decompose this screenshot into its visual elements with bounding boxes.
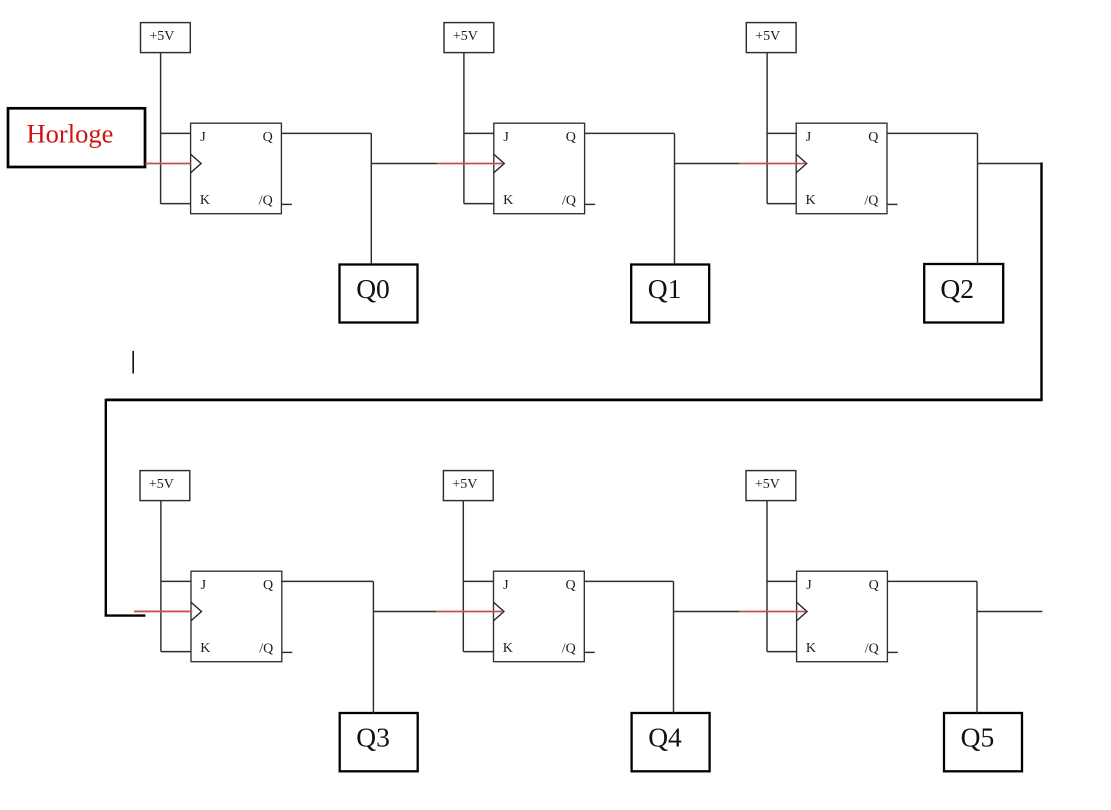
svg-text:Horloge: Horloge — [27, 119, 114, 149]
svg-text:+5V: +5V — [755, 477, 780, 492]
clock triangle U5 — [494, 602, 505, 621]
svg-text:J: J — [503, 578, 509, 593]
wire /Q stub U5 — [584, 651, 595, 653]
svg-text:/Q: /Q — [259, 642, 273, 657]
svg-text:+5V: +5V — [453, 29, 478, 44]
JK flip-flop U2 body (row1 col2) — [494, 123, 585, 214]
red clock wire into U6 — [739, 611, 806, 613]
wire feedback long horizontal — [106, 399, 1043, 402]
svg-text:Q4: Q4 — [648, 722, 682, 753]
wire +5V U3 vertical drop — [766, 53, 768, 204]
clock triangle U2 — [494, 154, 505, 173]
wire Q(U5) to node E — [584, 580, 673, 582]
JK flip-flop U4 body (row2 col1) — [191, 571, 282, 662]
wire +5V U2 to J (U2) — [464, 132, 494, 134]
wire node D to clock segment (dark part) — [373, 611, 436, 613]
svg-text:Q5: Q5 — [961, 722, 995, 753]
power box +5V (U6, row2 col3) — [746, 471, 796, 501]
red clock wire into U4 — [134, 610, 192, 612]
red clock wire into U1 — [145, 163, 191, 165]
output box Q3 — [340, 713, 418, 771]
wire Q(U6) to node F — [887, 580, 977, 582]
output box Q2 — [924, 264, 1003, 323]
svg-text:Q1: Q1 — [648, 273, 682, 304]
wire +5V U4 to J (U4) — [161, 580, 191, 582]
svg-text:Q: Q — [566, 130, 576, 145]
svg-text:/Q: /Q — [562, 642, 576, 657]
red clock wire into U5 — [436, 611, 503, 613]
feedback wire Q2 -> clock U4 (thick black) — [105, 163, 1043, 616]
cursor mark — [132, 351, 134, 374]
wire Q(U1) to node A — [281, 132, 371, 134]
JK flip-flop U6 body (row2 col3) — [797, 571, 888, 662]
output box Q4 — [632, 713, 710, 771]
red clock wire into U3 — [740, 163, 806, 165]
wire node C to feedback corner — [978, 163, 1042, 165]
wire +5V U3 to J (U3) — [767, 132, 796, 134]
wire node E to clock segment (dark part) — [674, 611, 740, 613]
wire +5V U2 to K (U2) — [464, 203, 494, 205]
wire +5V U5 to K (U5) — [463, 651, 493, 653]
clock triangle U6 — [797, 602, 808, 621]
wire +5V U4 vertical drop — [160, 501, 162, 652]
svg-text:/Q: /Q — [864, 194, 878, 209]
power box +5V (U3, row1 col3) — [746, 23, 796, 53]
wire feedback left vertical — [105, 399, 107, 616]
wire +5V U4 to K (U4) — [161, 651, 191, 653]
wire +5V U2 vertical drop — [463, 53, 465, 204]
JK flip-flop U3 body (row1 col3) — [796, 123, 887, 214]
wire /Q stub U1 — [281, 203, 292, 205]
wire +5V U5 to J (U5) — [463, 580, 493, 582]
wire /Q stub U2 — [585, 203, 596, 205]
wire +5V U5 vertical drop — [462, 501, 464, 652]
svg-text:+5V: +5V — [755, 29, 780, 44]
JK flip-flop U1 body (row1 col1) — [191, 123, 282, 214]
svg-text:Q: Q — [263, 130, 273, 145]
svg-text:Q: Q — [868, 130, 878, 145]
power box +5V (U4, row2 col1) — [140, 471, 190, 501]
svg-text:J: J — [201, 578, 207, 593]
wire node B drop to Q1 box — [674, 133, 676, 264]
wire +5V U3 to K (U3) — [767, 203, 796, 205]
JK flip-flop U5 body (row2 col2) — [494, 571, 585, 662]
svg-text:Q2: Q2 — [940, 273, 974, 304]
svg-text:K: K — [806, 641, 816, 656]
Horloge box — [8, 108, 145, 167]
svg-text:Q: Q — [566, 578, 576, 593]
red clock wire into U2 — [437, 163, 503, 165]
clock triangle U3 — [796, 154, 807, 173]
wire +5V U1 vertical drop — [160, 53, 162, 204]
clock triangle U1 — [191, 154, 202, 173]
clock triangle U4 — [191, 602, 202, 621]
svg-text:Q0: Q0 — [356, 273, 390, 304]
svg-text:K: K — [806, 193, 816, 208]
svg-text:J: J — [806, 130, 812, 145]
output box Q5 — [944, 713, 1022, 771]
svg-text:+5V: +5V — [149, 29, 174, 44]
wire +5V U6 to J (U6) — [767, 580, 797, 582]
svg-text:+5V: +5V — [149, 477, 174, 492]
wire node A to clock segment (dark part) — [371, 163, 437, 165]
wire Q(U4) to node D — [282, 580, 374, 582]
wire node F output stub — [977, 611, 1042, 613]
svg-text:J: J — [200, 130, 206, 145]
output box Q0 — [340, 265, 418, 323]
svg-text:/Q: /Q — [865, 642, 879, 657]
wire Q(U2) to node B — [585, 132, 675, 134]
wire node F drop to Q5 box — [976, 581, 978, 713]
wire node E drop to Q4 box — [673, 581, 675, 713]
svg-text:Q3: Q3 — [356, 722, 390, 753]
wire feedback bottom stub — [105, 614, 146, 616]
wires: thin dark — [161, 53, 1043, 713]
wire node D drop to Q3 box — [372, 581, 374, 713]
power box +5V (U5, row2 col2) — [443, 471, 493, 501]
svg-text:K: K — [503, 641, 513, 656]
output box Q1 — [631, 265, 709, 323]
wire +5V U6 to K (U6) — [767, 651, 797, 653]
svg-text:K: K — [200, 193, 210, 208]
svg-text:/Q: /Q — [259, 194, 273, 209]
wire +5V U1 to K (U1) — [161, 203, 191, 205]
wire node A drop to Q0 box — [370, 133, 372, 264]
wire feedback right vertical — [1040, 163, 1042, 400]
wire +5V U6 vertical drop — [766, 501, 768, 652]
power box +5V (U1, row1 col1) — [141, 23, 191, 53]
wire /Q stub U6 — [887, 651, 898, 653]
svg-text:Q: Q — [263, 578, 273, 593]
svg-text:+5V: +5V — [452, 477, 477, 492]
svg-text:J: J — [806, 578, 812, 593]
svg-text:/Q: /Q — [562, 194, 576, 209]
wire +5V U1 to J (U1) — [161, 132, 191, 134]
svg-text:J: J — [503, 130, 509, 145]
svg-text:Q: Q — [869, 578, 879, 593]
wire Q(U3) to node C — [887, 132, 978, 134]
wire /Q stub U3 — [887, 203, 898, 205]
power box +5V (U2, row1 col2) — [444, 23, 494, 53]
svg-text:K: K — [503, 193, 513, 208]
wire node B to clock segment (dark part) — [675, 163, 740, 165]
wire /Q stub U4 — [282, 651, 293, 653]
svg-text:K: K — [200, 641, 210, 656]
wire node C drop to Q2 box — [977, 133, 979, 264]
